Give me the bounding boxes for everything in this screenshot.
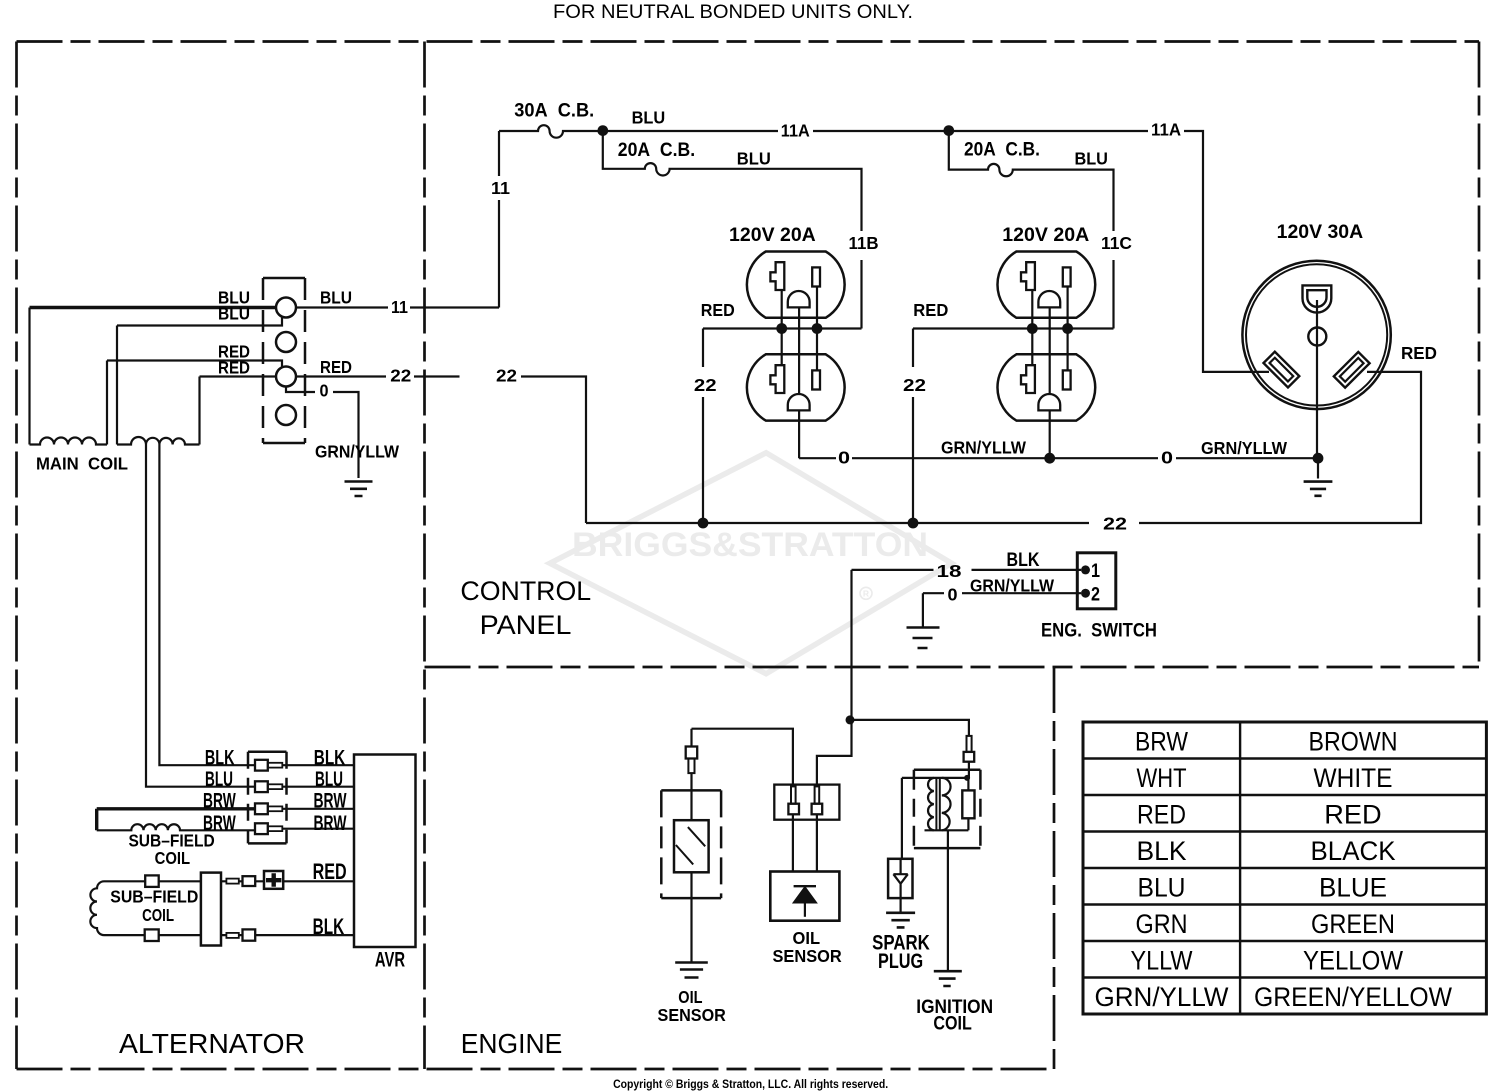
svg-text:BLK: BLK [1007,550,1040,571]
svg-text:BLK: BLK [314,747,346,770]
svg-text:22: 22 [903,375,926,395]
svg-text:YELLOW: YELLOW [1303,945,1403,975]
svg-text:11: 11 [491,178,510,198]
svg-text:BLU: BLU [632,108,666,128]
svg-text:BLU: BLU [205,768,233,791]
svg-text:RED: RED [218,358,250,378]
svg-text:BLK: BLK [205,747,235,770]
svg-text:20A C.B.: 20A C.B. [618,140,695,161]
svg-text:BLU: BLU [1138,872,1186,902]
svg-text:BLU: BLU [1074,149,1108,169]
svg-text:GRN/YLLW: GRN/YLLW [315,442,399,462]
svg-text:YLLW: YLLW [1131,945,1193,975]
svg-text:GRN: GRN [1136,909,1188,939]
svg-text:OIL: OIL [793,928,821,948]
svg-text:2: 2 [1091,584,1100,605]
svg-text:RED: RED [313,859,347,884]
svg-text:R: R [863,588,869,598]
svg-text:120V 20A: 120V 20A [729,225,816,246]
svg-text:COIL: COIL [142,905,174,925]
svg-text:0: 0 [948,585,958,605]
svg-text:GREEN: GREEN [1311,909,1395,939]
svg-text:11: 11 [391,297,408,317]
svg-text:FOR NEUTRAL BONDED UNITS ONLY.: FOR NEUTRAL BONDED UNITS ONLY. [553,2,913,23]
svg-text:MAIN COIL: MAIN COIL [36,454,128,474]
svg-text:BLU: BLU [218,304,250,324]
svg-text:BLUE: BLUE [1319,872,1387,902]
svg-text:22: 22 [496,366,517,386]
svg-text:RED: RED [1401,343,1437,363]
svg-text:18: 18 [937,561,962,581]
svg-text:20A C.B.: 20A C.B. [964,140,1040,161]
svg-text:COIL: COIL [933,1014,972,1035]
svg-text:GRN/YLLW: GRN/YLLW [1095,982,1229,1012]
svg-text:WHITE: WHITE [1314,763,1393,793]
svg-text:WHT: WHT [1137,763,1187,793]
svg-text:GREEN/YELLOW: GREEN/YELLOW [1254,982,1452,1012]
svg-text:0: 0 [1161,448,1173,468]
svg-text:BRW: BRW [314,790,347,813]
svg-text:11A: 11A [781,121,810,141]
svg-text:BRW: BRW [1135,726,1188,756]
svg-text:11B: 11B [849,233,879,253]
svg-text:BLK: BLK [313,914,345,939]
svg-text:PANEL: PANEL [480,610,572,640]
svg-text:OIL: OIL [678,987,702,1007]
svg-text:BLACK: BLACK [1311,836,1396,866]
svg-text:GRN/YLLW: GRN/YLLW [1201,438,1287,458]
svg-text:ENG. SWITCH: ENG. SWITCH [1041,621,1157,642]
svg-text:Copyright © Briggs & Stratton,: Copyright © Briggs & Stratton, LLC. All … [613,1077,888,1091]
svg-text:BLK: BLK [1137,836,1187,866]
svg-text:11C: 11C [1101,233,1132,253]
svg-text:SENSOR: SENSOR [658,1005,727,1025]
svg-text:ALTERNATOR: ALTERNATOR [119,1028,305,1059]
svg-text:BLU: BLU [320,288,352,308]
svg-text:BLU: BLU [315,768,343,791]
svg-text:0: 0 [838,448,850,468]
svg-text:0: 0 [320,381,329,401]
svg-text:22: 22 [390,366,411,386]
svg-text:RED: RED [320,357,352,377]
svg-text:120V 30A: 120V 30A [1277,222,1364,243]
svg-text:1: 1 [1091,561,1100,582]
svg-text:30A C.B.: 30A C.B. [514,101,594,122]
svg-text:RED: RED [701,300,735,320]
svg-text:PLUG: PLUG [878,950,923,973]
svg-text:ENGINE: ENGINE [461,1028,563,1059]
svg-text:RED: RED [1137,799,1186,829]
svg-text:11A: 11A [1151,120,1181,140]
svg-text:120V 20A: 120V 20A [1002,225,1089,246]
svg-text:BRIGGS&STRATTON: BRIGGS&STRATTON [572,526,928,564]
svg-text:BROWN: BROWN [1309,726,1398,756]
svg-text:BRW: BRW [203,790,236,813]
svg-text:GRN/YLLW: GRN/YLLW [941,438,1026,458]
svg-text:RED: RED [913,300,948,320]
svg-text:AVR: AVR [375,949,405,972]
svg-text:RED: RED [1324,799,1381,829]
svg-text:SUB–FIELD: SUB–FIELD [110,886,198,906]
svg-text:CONTROL: CONTROL [460,576,591,606]
svg-text:COIL: COIL [155,848,191,868]
svg-text:BRW: BRW [314,812,347,835]
svg-text:22: 22 [694,375,717,395]
svg-text:GRN/YLLW: GRN/YLLW [970,576,1054,596]
svg-text:BLU: BLU [737,149,771,169]
svg-text:22: 22 [1103,514,1127,534]
svg-text:SENSOR: SENSOR [773,946,843,966]
